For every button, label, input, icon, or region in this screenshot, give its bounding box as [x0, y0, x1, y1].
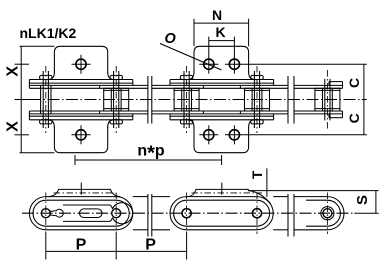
- roller + pin 4 (plan, x=257): [245, 66, 270, 133]
- link plate 1 inner outline: [33, 200, 129, 226]
- S extension bottom (centerline level): [354, 212, 378, 214]
- svg-text:C: C: [346, 78, 362, 88]
- svg-text:X: X: [5, 66, 22, 77]
- K2 lower tab holes: [199, 125, 218, 144]
- outer plate tip edges (plan): [132, 80, 134, 86]
- K1 upper tab hole: [72, 55, 91, 74]
- side break mark left: [147, 194, 149, 237]
- S dimension line: [375, 191, 377, 214]
- X extension upper hole level: [15, 63, 30, 65]
- svg-text:S: S: [354, 195, 371, 205]
- P dimension line: [46, 250, 187, 252]
- n*p dimension: [74, 155, 76, 165]
- pin 3 circles (side): [182, 209, 191, 218]
- svg-text:N: N: [212, 7, 222, 23]
- plan plate strips segment 3: [294, 84, 343, 86]
- svg-text:P: P: [76, 236, 87, 253]
- K2 attachment hump (side): [188, 189, 249, 196]
- svg-text:T: T: [250, 170, 265, 179]
- S extension top (attachment surface level): [248, 190, 378, 192]
- K1 lower tab hole: [72, 125, 91, 144]
- spring clip waist edges: [63, 204, 110, 206]
- K1 attachment lower tab (plan): [47, 120, 116, 153]
- N dimension: [193, 19, 195, 47]
- roller + pin 2 (plan, x=116.2): [104, 66, 129, 133]
- pin centerlines (side): [45, 193, 47, 235]
- O leader line: [160, 44, 222, 71]
- svg-text:P: P: [145, 236, 156, 253]
- K2 hump centerline: [192, 192, 263, 194]
- C dimension line (vertical right): [363, 64, 365, 135]
- K1 attachment upper tab (plan): [47, 46, 116, 79]
- outer link plate 1 (side, connecting link): [29, 197, 132, 230]
- inner plate edges between links: [133, 196, 148, 198]
- plan break mark right: [287, 76, 289, 124]
- K2 attachment upper tab (plan): [186, 46, 256, 79]
- inner link plate right end (side): [294, 197, 344, 230]
- X dimension line (vertical left): [20, 46, 22, 152]
- side chain centerline: [22, 212, 353, 214]
- tab bottom edge extension: [20, 152, 55, 154]
- outer link plate 2 (side, K2 link): [170, 197, 273, 230]
- spring clip C-eye around pin 2: [112, 209, 121, 218]
- P dimension extension lines: [45, 233, 47, 260]
- link plate 2 inner outline: [174, 200, 270, 226]
- X extension lower hole level: [15, 134, 30, 136]
- K1 hump centerline: [54, 192, 115, 194]
- svg-text:nLK1/K2: nLK1/K2: [20, 25, 77, 41]
- T dimension extension: [266, 168, 268, 197]
- label reference line (tab top edge extension): [20, 45, 55, 47]
- K2 hump center tick: [221, 183, 223, 195]
- pin 5 circles (side, bush face): [323, 209, 332, 218]
- pin 1 (plan, x=45.8): [40, 66, 52, 133]
- spring clip keyhole around pin 1: [41, 209, 50, 218]
- K2 upper tab holes: [199, 55, 218, 74]
- svg-text:K: K: [215, 24, 225, 40]
- plan break mark left: [147, 76, 149, 124]
- roller + pin 3 (plan, x=186.6): [174, 66, 199, 133]
- plan plate strips segment 1: [29, 79, 132, 81]
- roller + pin 5 (plan, x=327.4): [315, 70, 340, 130]
- K1 hump center tick: [80, 183, 82, 195]
- K2 attachment lower tab (plan): [186, 120, 256, 153]
- C extension upper: [244, 63, 367, 65]
- spring clip middle slot: [80, 209, 103, 218]
- inner plate tip edges (plan): [99, 85, 101, 88]
- side break mark right: [287, 194, 289, 237]
- svg-text:C: C: [346, 113, 362, 123]
- K1 attachment hump (side): [49, 189, 121, 196]
- K2 hump end wrap curve: [248, 191, 270, 204]
- svg-text:O: O: [165, 31, 177, 47]
- C extension lower: [244, 134, 367, 136]
- plan chain centerline: [15, 99, 30, 101]
- plan plate strips segment 2: [170, 79, 274, 81]
- pin 4 circles (side): [252, 209, 261, 218]
- svg-text:X: X: [5, 121, 22, 132]
- K dimension: [208, 37, 210, 55]
